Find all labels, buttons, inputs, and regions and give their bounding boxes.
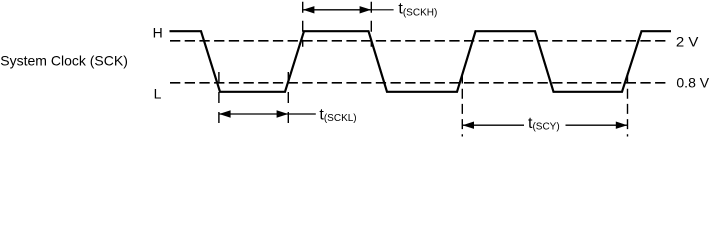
wire: t(SCKL) dimension arrow [219, 110, 288, 117]
svg-text:H: H [153, 25, 163, 41]
svg-text:t(SCKH): t(SCKH) [398, 1, 437, 19]
wire: t(SCKL) left dashed marker [218, 72, 220, 126]
wire: t(SCKH) right dashed marker [370, 2, 372, 47]
svg-text:t(SCY): t(SCY) [528, 115, 560, 133]
node: 2 V threshold dashed line [170, 40, 668, 42]
wire: t(SCY) left dashed marker [461, 74, 463, 137]
svg-text:L: L [154, 85, 162, 101]
wire: t(SCKL) right dashed marker [287, 72, 289, 126]
wire: t(SCKH) leader line [371, 9, 393, 11]
node: 0.8 V threshold dashed line [170, 82, 666, 84]
wire: SCK clock waveform [170, 31, 672, 92]
svg-text:System Clock (SCK): System Clock (SCK) [0, 52, 128, 68]
wire: t(SCY) right dashed marker [627, 74, 629, 137]
wire: t(SCKH) dimension arrow [303, 6, 371, 13]
wire: t(SCKL) leader line [288, 113, 316, 115]
svg-text:2 V: 2 V [676, 34, 699, 50]
svg-text:0.8 V: 0.8 V [676, 75, 709, 91]
wire: t(SCKH) left dashed marker [302, 2, 304, 47]
wire: t(SCY) dimension arrow [463, 122, 628, 129]
svg-text:t(SCKL): t(SCKL) [319, 107, 356, 125]
